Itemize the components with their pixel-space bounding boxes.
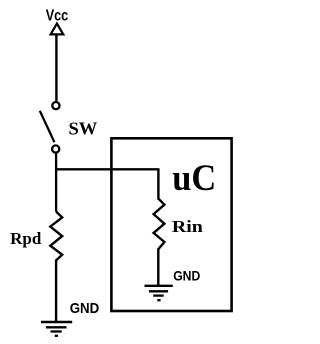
svg-text:Rpd: Rpd [10,229,42,248]
svg-text:uC: uC [172,158,216,199]
svg-text:GND: GND [173,269,200,284]
svg-text:SW: SW [69,119,98,139]
svg-text:Rin: Rin [172,217,204,236]
svg-text:GND: GND [70,301,100,317]
